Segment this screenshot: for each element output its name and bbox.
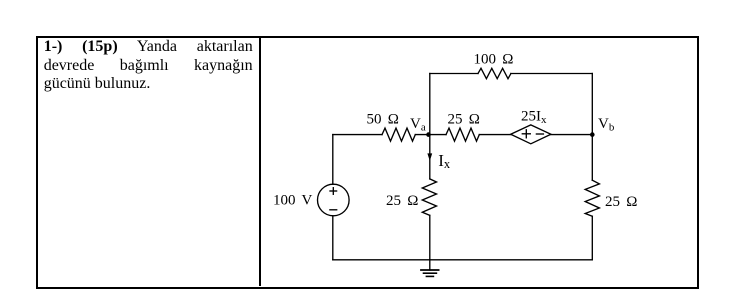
resistor 25 ohm (middle vertical) xyxy=(422,179,436,216)
wire: middle resistor to bottom rail xyxy=(429,215,431,259)
svg-text:100 Ω: 100 Ω xyxy=(474,51,514,67)
resistor 100 ohm (top) xyxy=(478,68,511,78)
wire: voltage source to bottom rail xyxy=(332,216,334,260)
current arrow Ix xyxy=(427,153,432,161)
problem statement text xyxy=(44,38,253,94)
node Va (junction dot) xyxy=(426,132,431,137)
resistor 25 ohm (right vertical) xyxy=(585,180,599,216)
svg-text:25Ix: 25Ix xyxy=(521,109,547,127)
wire: top rail right segment xyxy=(511,73,592,75)
table cell border xyxy=(36,36,699,289)
wire: node Vb down to right 25-ohm resistor xyxy=(591,135,593,181)
svg-text:Va: Va xyxy=(410,116,426,134)
voltage source 100 V (independent, circle) xyxy=(318,184,350,216)
wire: top rail left segment xyxy=(430,73,478,75)
svg-text:25 Ω: 25 Ω xyxy=(605,194,637,210)
wire: dependent source to node Vb xyxy=(551,134,592,136)
wire: node Va up to top rail xyxy=(429,74,431,135)
wire: top rail down to node Vb xyxy=(591,74,593,135)
wire: node Va down to middle 25-ohm resistor xyxy=(429,135,431,179)
wire: middle rail left segment (source top node to 50-ohm resistor) xyxy=(333,134,382,136)
svg-text:25 Ω: 25 Ω xyxy=(386,193,418,209)
svg-text:Vb: Vb xyxy=(598,116,615,134)
svg-text:25 Ω: 25 Ω xyxy=(448,112,480,128)
wire: 50-ohm resistor to node Va xyxy=(415,134,430,136)
svg-text:50 Ω: 50 Ω xyxy=(367,112,399,128)
dependent voltage source 25Ix (diamond) xyxy=(511,125,551,144)
svg-text:Ix: Ix xyxy=(438,151,451,171)
ground symbol xyxy=(421,260,439,277)
table column divider xyxy=(259,36,261,286)
wire: node Va to 25-ohm middle resistor xyxy=(430,134,446,136)
wire: source top node down to voltage source xyxy=(332,135,334,185)
wire: right resistor to bottom rail xyxy=(591,216,593,259)
node Vb (junction dot) xyxy=(590,132,595,137)
resistor 50 ohm (horizontal) xyxy=(382,128,415,141)
wire: bottom rail xyxy=(333,259,593,261)
wire: 25-ohm resistor to dependent source xyxy=(479,134,510,136)
resistor 25 ohm (middle horizontal) xyxy=(446,128,479,141)
svg-text:100 V: 100 V xyxy=(273,193,312,209)
